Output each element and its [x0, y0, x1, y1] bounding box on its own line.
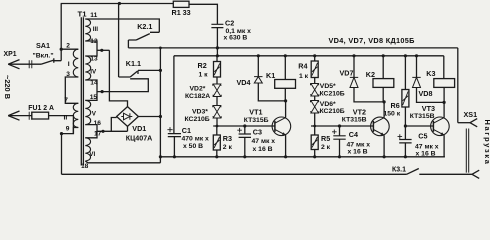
label VT3 type: [410, 113, 435, 120]
label VD5: [320, 83, 336, 90]
wire R2 to VD2: [216, 77, 218, 84]
wire rail A: [128, 47, 457, 49]
relay contact K2.1 label: [137, 22, 152, 31]
XP1 lower pin contact (arrow): [8, 111, 19, 120]
node K1 railB: [284, 54, 287, 57]
wire C3 top: [244, 126, 246, 134]
winding V label: [92, 111, 97, 118]
svg-text:47 мк х: 47 мк х: [347, 141, 371, 148]
wire rail B to R2: [216, 56, 218, 62]
wire fuse to winding II pin 9: [49, 116, 74, 134]
wire to XS1 upper: [458, 122, 470, 124]
wire VT1 collector: [285, 101, 287, 118]
label C4 value: [347, 141, 371, 155]
wire rail B left corner down (C1 branch): [173, 56, 175, 134]
svg-text:VD2*: VD2*: [190, 86, 206, 93]
wire K3 top: [443, 56, 445, 79]
zener VD6: [311, 101, 319, 114]
wire winding V pin16 to pin17: [85, 125, 97, 138]
wire VT3 collector: [443, 102, 445, 117]
resistor R6: [402, 90, 409, 108]
node bridge-right junction: [159, 115, 162, 118]
node railA-K1.1: [159, 47, 162, 50]
node C1-ground: [173, 155, 176, 158]
node C2-railA: [216, 46, 219, 49]
pin label 7: [64, 97, 68, 104]
winding III: [85, 19, 90, 41]
wire vertical railA to ground via bridge: [159, 48, 161, 163]
wire VD3 to base line: [216, 118, 218, 126]
wire top rail right segment to C2: [189, 4, 217, 24]
svg-text:К3.1: К3.1: [392, 167, 406, 174]
pin label 14: [90, 79, 98, 86]
wire VD5 to VD6: [314, 96, 316, 101]
label C4: [349, 130, 358, 139]
label VD6 type: [320, 108, 345, 115]
svg-text:150 к: 150 к: [384, 110, 401, 117]
wire K1 bottom: [284, 88, 286, 101]
relay coil K1: [275, 80, 296, 89]
wire winding VI pin18: [85, 161, 160, 163]
socket XS1 body: [466, 129, 468, 173]
svg-text:VD5*: VD5*: [320, 83, 336, 90]
svg-text:XS1: XS1: [464, 110, 478, 119]
wire stage3 base line: [405, 125, 433, 127]
node C5 tap: [404, 124, 407, 127]
winding VI: [85, 138, 90, 161]
label R3: [223, 134, 233, 151]
wire C4 to ground: [339, 139, 341, 157]
svg-text:7: 7: [64, 97, 68, 104]
rectifier bridge VD1: [117, 107, 139, 127]
node K3 collector junction: [443, 101, 446, 104]
svg-text:C5: C5: [418, 131, 427, 140]
svg-text:VD7: VD7: [340, 68, 354, 77]
svg-text:VD3*: VD3*: [192, 108, 208, 115]
svg-text:T1: T1: [78, 9, 88, 18]
svg-text:VD4: VD4: [237, 78, 251, 87]
XP1 upper pin contact (arrow): [8, 60, 19, 69]
label R6: [384, 101, 401, 117]
wire K1 top: [284, 56, 286, 80]
wire R5 to ground: [314, 150, 316, 157]
label K1: [266, 71, 275, 80]
capacitor C4: [332, 130, 346, 140]
node pin9 junction: [60, 132, 63, 135]
capacitor C3: [237, 128, 251, 137]
label C5: [418, 131, 427, 140]
svg-text:C2: C2: [225, 19, 234, 28]
relay contact K1.1 label: [126, 59, 141, 68]
socket XS1 lower contact: [472, 170, 479, 178]
node 14-15 junction: [101, 90, 104, 93]
resistor R1 33: [172, 1, 191, 17]
svg-text:9: 9: [66, 126, 70, 133]
relay contact K2.1: [128, 34, 149, 48]
transistor VT1: [272, 117, 291, 136]
label VT2 type: [342, 117, 367, 124]
node C2-railB: [216, 54, 219, 57]
capacitor C1: [167, 127, 181, 137]
wire 12-13 tap: [97, 49, 109, 51]
svg-text:17: 17: [94, 130, 102, 137]
wire VD8 bottom to K3 bottom: [417, 88, 445, 103]
label VD7: [340, 68, 354, 77]
node R5-ground: [313, 155, 316, 158]
svg-text:R2: R2: [198, 61, 207, 70]
pin label 3: [66, 71, 70, 78]
wire VD7 top: [353, 56, 355, 78]
winding VI label: [89, 151, 95, 158]
connector break marks upper wire: [29, 60, 32, 68]
label VD1: [132, 124, 146, 133]
svg-text:C4: C4: [349, 130, 358, 139]
svg-text:КТ315В: КТ315В: [342, 117, 367, 124]
wire ground rail: [160, 156, 445, 158]
svg-text:47 мк х: 47 мк х: [252, 138, 276, 145]
wire VT2 collector: [383, 102, 385, 118]
node R3 tap: [216, 125, 219, 128]
svg-text:IV: IV: [90, 69, 97, 76]
label R5: [321, 134, 331, 151]
node VT2 emitter ground: [383, 155, 386, 158]
svg-text:VT1: VT1: [249, 108, 262, 117]
svg-text:VI: VI: [89, 151, 95, 158]
wire VT1 emitter: [285, 135, 287, 157]
svg-text:х 16 В: х 16 В: [348, 149, 368, 156]
node K1 collector junction: [284, 99, 287, 102]
svg-text:R5: R5: [321, 134, 330, 143]
svg-text:XP1: XP1: [4, 51, 17, 58]
node C4 tap: [338, 124, 341, 127]
label VT1 type: [244, 117, 269, 124]
svg-text:I: I: [68, 61, 70, 68]
fuse FU1: [32, 112, 49, 119]
pin label 12: [90, 38, 98, 45]
node pin2 junction: [60, 48, 63, 51]
label K2: [366, 70, 375, 79]
svg-text:КС210Б: КС210Б: [185, 116, 210, 123]
relay coil K2: [373, 79, 394, 88]
svg-text:х 16 В: х 16 В: [416, 150, 436, 157]
switch SA1: [41, 58, 61, 64]
wire XP1 lower pin to fuse: [8, 115, 32, 117]
label R2: [198, 61, 209, 79]
svg-text:K3: K3: [426, 69, 435, 78]
wire 14-15 tap to K1.1: [97, 79, 148, 92]
node C4-ground: [338, 155, 341, 158]
svg-text:2: 2: [66, 43, 70, 50]
node ground rail start: [159, 155, 162, 158]
label VD1 type: [126, 135, 152, 143]
pin label 16: [94, 120, 102, 127]
label C5 value: [415, 143, 439, 157]
relay contact K1.1: [119, 70, 161, 77]
node VD8 railB: [415, 54, 418, 57]
pin label 15: [90, 94, 98, 101]
wire C1 to ground: [173, 137, 175, 157]
winding I pin2 wire: [61, 48, 78, 50]
winding IV: [85, 56, 90, 80]
svg-text:C1: C1: [182, 126, 191, 135]
wire rail A right corner down: [457, 48, 459, 123]
svg-text:11: 11: [90, 12, 97, 19]
svg-text:II: II: [64, 115, 68, 122]
svg-text:КС210Б: КС210Б: [320, 91, 345, 98]
switch SA1 label: [33, 41, 54, 60]
pin label 18: [81, 163, 89, 170]
capacitor C2: [211, 24, 223, 27]
pin label 13: [90, 55, 98, 62]
label VT1: [249, 108, 262, 117]
svg-text:FU1 2 А: FU1 2 А: [28, 105, 54, 112]
wire C4 top: [339, 126, 341, 136]
wire C5 to ground: [404, 143, 406, 157]
resistor R5: [311, 135, 318, 150]
svg-text:III: III: [93, 26, 98, 33]
label VD6: [320, 101, 336, 108]
svg-text:SA1: SA1: [36, 41, 50, 50]
winding II bottom stub: [73, 128, 78, 134]
svg-text:VT2: VT2: [353, 108, 366, 117]
wire stage1 base line: [213, 125, 275, 127]
svg-text:~220 В: ~220 В: [3, 75, 12, 99]
wire VT2 emitter: [383, 135, 385, 157]
svg-text:VD1: VD1: [132, 124, 146, 133]
node XP1 mains plug: [4, 51, 17, 58]
label VD4: [237, 78, 251, 87]
wire K2 bottom: [382, 87, 384, 102]
wire bottom rail right: [419, 173, 472, 175]
connector break marks lower wire: [29, 112, 32, 120]
node K1.1 fixed junction: [159, 69, 162, 72]
wire R4 to VD5: [314, 78, 316, 84]
svg-text:х 16 В: х 16 В: [253, 146, 273, 153]
label VD3: [192, 108, 208, 115]
svg-text:VD4, VD7, VD8 КД105Б: VD4, VD7, VD8 КД105Б: [329, 36, 415, 45]
node R6 railB: [404, 54, 407, 57]
label C1: [182, 126, 191, 135]
svg-text:1 к: 1 к: [299, 73, 309, 80]
node C3 tap: [243, 124, 246, 127]
resistor R4: [311, 61, 318, 78]
wire winding IV pin14 to pin15: [85, 80, 97, 100]
svg-text:R1 33: R1 33: [172, 8, 191, 17]
zener VD2: [213, 84, 221, 97]
diode VD7: [350, 77, 358, 87]
svg-text:х 50 В: х 50 В: [183, 143, 203, 150]
wire bridge right corner: [138, 116, 160, 118]
wire SA1 up to top rail: [60, 4, 62, 61]
wire K3 bottom: [443, 87, 445, 102]
svg-text:K1.1: K1.1: [126, 59, 141, 68]
wire left outer down to bottom rail: [61, 134, 63, 175]
node VD4 railB: [257, 54, 260, 57]
pin label 2: [66, 43, 70, 50]
wire VD7 bottom to K2 bottom: [354, 88, 384, 102]
svg-text:КС210Б: КС210Б: [320, 108, 345, 115]
label ~220 V: [3, 75, 12, 99]
label VD2 type: [185, 93, 210, 100]
svg-text:R4: R4: [298, 61, 307, 70]
wire VD6 to base line: [314, 113, 316, 126]
svg-text:15: 15: [90, 94, 98, 101]
svg-text:VT3: VT3: [422, 104, 435, 113]
wire R3 to ground: [216, 150, 218, 157]
zener VD3: [213, 106, 221, 119]
svg-text:КС182А: КС182А: [185, 93, 210, 100]
zener VD5: [311, 84, 319, 97]
winding I label: [68, 61, 70, 68]
transistor VT2: [371, 117, 390, 136]
winding IV label: [90, 69, 97, 76]
svg-text:R6: R6: [391, 101, 400, 110]
wire bottom rail left: [62, 173, 407, 175]
label VT2: [353, 108, 366, 117]
svg-text:КЦ407А: КЦ407А: [126, 135, 152, 143]
node K2 railB: [382, 54, 385, 57]
fuse FU1 2A label: [28, 105, 54, 112]
node VT1 emitter ground: [284, 155, 287, 158]
wire rail B to R4: [314, 56, 316, 61]
wire rail B to R6: [404, 56, 406, 90]
wire C2 bottom to rails: [216, 28, 218, 56]
node C5-ground: [404, 155, 407, 158]
wire 16-17 tap to bridge: [97, 118, 128, 132]
label VT3: [422, 104, 435, 113]
svg-text:C3: C3: [253, 127, 262, 136]
wire C3 to ground: [244, 137, 246, 156]
pin label 11: [90, 12, 97, 19]
wire pin11 to K2.1: [85, 19, 159, 32]
label VD8: [419, 89, 433, 98]
node R3-ground: [215, 155, 218, 158]
svg-text:K2: K2: [366, 70, 375, 79]
label K3: [426, 69, 435, 78]
wire VD4 bottom to K1 bottom: [258, 83, 285, 101]
resistor R2: [214, 62, 221, 78]
label load Нагрузка: [483, 120, 490, 166]
svg-text:2 к: 2 к: [223, 144, 233, 151]
node R5 tap: [313, 125, 316, 128]
capacitor C5: [398, 134, 412, 143]
svg-text:K1: K1: [266, 71, 275, 80]
winding I: [73, 49, 78, 77]
relay contact K3.1: [407, 169, 419, 175]
svg-text:K2.1: K2.1: [137, 22, 152, 31]
wire R6 to base line: [404, 107, 406, 126]
diode VD4: [254, 77, 262, 83]
wire VD4 top: [257, 56, 259, 77]
wire top junction down to K1.1: [118, 4, 120, 78]
label R4: [298, 61, 308, 80]
wire VD2 to VD3: [216, 97, 218, 106]
transistor VT3: [431, 117, 450, 136]
wire XP1 upper pin to SA1: [8, 63, 41, 65]
svg-text:КТ315Б: КТ315Б: [244, 117, 269, 124]
wire top rail left segment: [61, 3, 174, 5]
svg-text:VD8: VD8: [419, 89, 433, 98]
wire 12-13 tap to bridge top: [109, 50, 127, 106]
wire C5 top: [404, 126, 406, 140]
winding III label: [93, 26, 98, 33]
resistor R3: [213, 135, 220, 150]
winding II label: [64, 115, 68, 122]
svg-text:47 мк х: 47 мк х: [415, 143, 439, 150]
node 16-17 junction: [101, 130, 104, 133]
wire R5 top: [314, 126, 316, 135]
winding II: [73, 103, 78, 127]
relay coil K3: [434, 79, 455, 88]
node 12-13 junction: [100, 49, 103, 52]
svg-text:"Вкл.": "Вкл.": [33, 53, 54, 60]
svg-text:Нагрузка: Нагрузка: [483, 120, 490, 166]
label C3 value: [252, 138, 276, 153]
svg-text:1 к: 1 к: [199, 72, 209, 79]
node C3-ground: [243, 155, 246, 158]
wire rail B: [174, 55, 444, 57]
wire R3 top: [216, 126, 218, 135]
wire stage2 base line: [311, 125, 373, 127]
diode VD8: [412, 77, 420, 87]
node R4 railB: [313, 54, 316, 57]
svg-text:х 630 В: х 630 В: [224, 34, 248, 41]
label diode types: [329, 36, 415, 45]
wire winding I to winding II: [65, 77, 78, 103]
svg-text:18: 18: [81, 163, 89, 170]
label VD2: [190, 86, 206, 93]
svg-text:470 мк х: 470 мк х: [182, 136, 210, 143]
transformer T1 core: [81, 17, 83, 165]
relay contact K3.1 label: [392, 167, 406, 174]
wire winding III pin12 to pin13: [85, 41, 97, 56]
wire VD8 top: [416, 56, 418, 78]
pin label 9: [66, 126, 70, 133]
node VD7 railB: [352, 54, 355, 57]
label C1 value: [182, 136, 210, 150]
node junction top rail: [118, 2, 121, 5]
label C3: [253, 127, 262, 136]
pin label 17: [94, 130, 102, 137]
transformer T1 label: [78, 9, 88, 18]
winding V: [85, 100, 90, 124]
label VD5 type: [320, 91, 345, 98]
wire K2 top: [382, 56, 384, 79]
svg-text:2 к: 2 к: [321, 144, 331, 151]
node K2 collector junction: [383, 100, 386, 103]
wire VT3 emitter: [443, 135, 445, 157]
socket XS1 upper contact: [470, 119, 477, 127]
label C2 value: [224, 19, 252, 42]
svg-text:13: 13: [90, 55, 98, 62]
label VD3 type: [185, 116, 210, 123]
label XS1: [464, 110, 478, 119]
svg-text:R3: R3: [223, 134, 232, 143]
svg-text:КТ315В: КТ315В: [410, 113, 435, 120]
